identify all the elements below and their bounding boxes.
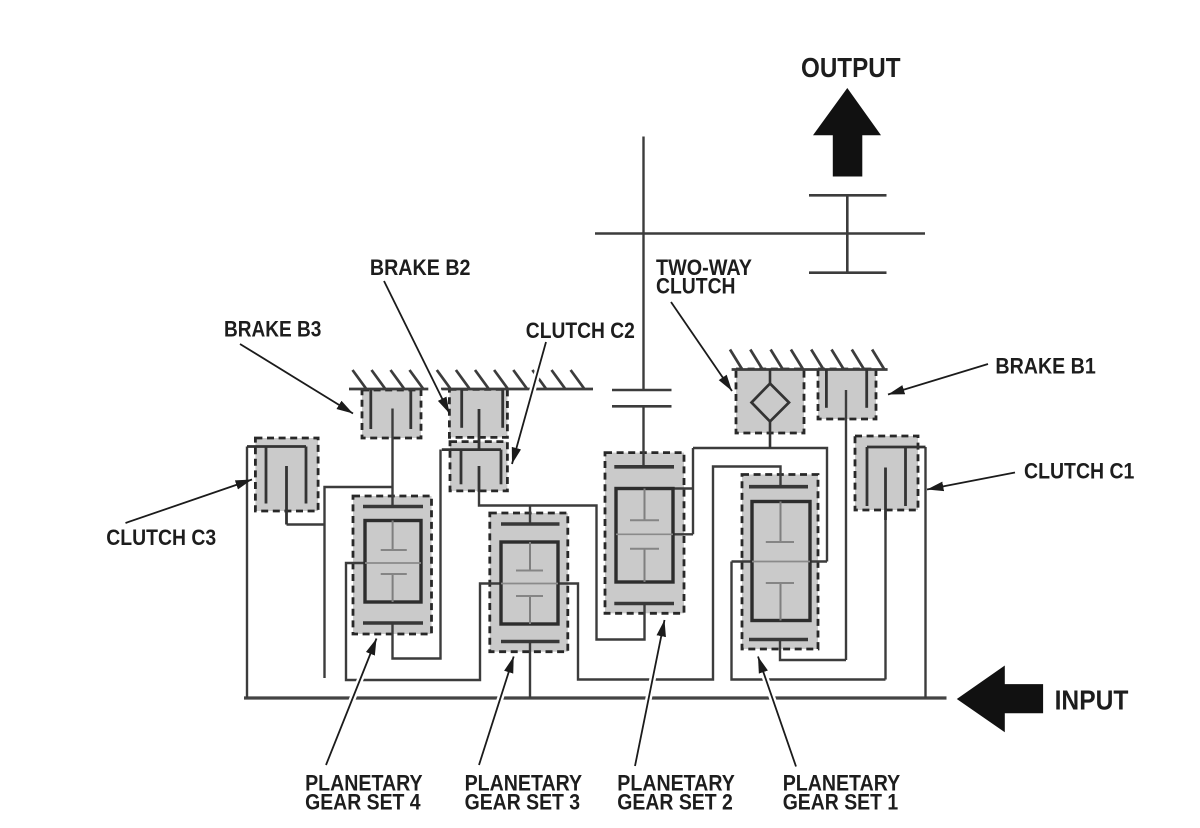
wire: set3 ring stub to bus (529, 642, 531, 698)
svg-text:OUTPUT: OUTPUT (801, 52, 901, 83)
shaft coupling bars on main shaft (612, 390, 672, 406)
label arrow: brake B3 (240, 344, 342, 407)
wire: brake B3 / sun gear 4 shaft (391, 409, 393, 507)
label arrow: planetary gear set 2 (635, 633, 662, 766)
wire: input bus (244, 696, 947, 699)
brake B2 box (449, 389, 507, 437)
wire: set4 carrier to set3 carrier (346, 563, 501, 680)
wire: clutch C1 outer to input bus (924, 447, 926, 698)
label arrow: planetary gear set 3 (479, 669, 510, 765)
INPUT block arrow (957, 666, 1043, 733)
OUTPUT block arrow (813, 88, 881, 177)
label arrow: clutch C2 (516, 342, 547, 452)
two-way clutch box (736, 369, 804, 433)
wire: output horizontal line (595, 232, 925, 234)
brake B2 (462, 389, 503, 450)
ground hatch segment 1 (above brake B3) (349, 370, 428, 389)
svg-text:GEAR SET 3: GEAR SET 3 (465, 790, 580, 815)
label arrow: clutch C3 (126, 484, 240, 523)
planetary gear set 1 (749, 487, 810, 640)
brake B1 (826, 369, 866, 408)
two-way clutch (752, 369, 790, 448)
label arrow: planetary gear set 1 (762, 669, 796, 767)
clutch C1 (867, 447, 926, 520)
clutch C1 box (855, 436, 918, 510)
ground hatch segment 2 (above brake B2) (437, 370, 593, 389)
wire: set4 ring to clutch C2 outer (393, 450, 441, 659)
brake B3 (371, 390, 411, 429)
planetary gear set 3 box (490, 513, 568, 652)
clutch C3 (247, 447, 306, 525)
brake B3 box (362, 390, 421, 438)
wire: two-way clutch to carrier shaft, set1 carrier (693, 448, 886, 680)
svg-text:CLUTCH C1: CLUTCH C1 (1024, 459, 1134, 484)
svg-text:GEAR SET 1: GEAR SET 1 (783, 790, 899, 815)
wire: shaft below bars to gear set 2 (642, 406, 644, 466)
svg-text:GEAR SET 2: GEAR SET 2 (617, 790, 733, 815)
clutch C2 (442, 450, 501, 492)
label arrow: brake B1 (900, 364, 988, 391)
clutch C2 box (450, 442, 507, 491)
label arrow: brake B2 (384, 281, 444, 402)
output coupling I-beam (809, 195, 887, 272)
label arrow: two-way clutch (671, 302, 725, 380)
clutch C3 box (255, 438, 318, 511)
svg-text:GEAR SET 4: GEAR SET 4 (305, 790, 421, 815)
label arrow: clutch C1 (940, 473, 1015, 488)
label arrow: planetary gear set 4 (326, 651, 372, 765)
wire: set3 carrier right to set1 top bar (558, 467, 781, 680)
svg-text:CLUTCH C3: CLUTCH C3 (106, 525, 216, 550)
planetary gear set 2 box (605, 453, 684, 614)
svg-text:CLUTCH C2: CLUTCH C2 (526, 318, 635, 343)
svg-text:CLUTCH: CLUTCH (656, 274, 736, 299)
planetary gear set 4 (363, 507, 423, 624)
planetary gear set 3 (501, 524, 560, 642)
wire: set1 ring to brake B1 (780, 390, 846, 660)
svg-text:BRAKE B2: BRAKE B2 (370, 255, 471, 280)
wire: set2 carrier/ring right extensions (673, 448, 693, 534)
wire: C2 inner to set3 top bar and set2 ring (479, 490, 645, 640)
svg-text:BRAKE B3: BRAKE B3 (224, 317, 321, 342)
ground hatch segment 3 (above two-way clutch and brake B1) (730, 350, 888, 370)
planetary gear set 4 box (353, 496, 432, 634)
svg-text:BRAKE B1: BRAKE B1 (995, 354, 1095, 379)
wire: main input shaft vertical (642, 137, 644, 390)
wire: clutch C3 outer drop to bus (246, 447, 248, 699)
planetary gear set 1 box (742, 475, 818, 650)
wire: C3 inner to sun shaft of set 4 (287, 487, 394, 678)
svg-text:INPUT: INPUT (1055, 685, 1129, 716)
brake B1 box (818, 369, 876, 419)
planetary gear set 2 (614, 467, 674, 604)
